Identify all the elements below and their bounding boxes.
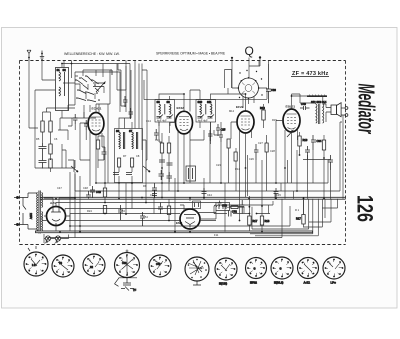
- svg-text:C47: C47: [57, 186, 62, 190]
- antenna coil box S1 S2: [56, 68, 69, 111]
- svg-text:R19: R19: [303, 138, 308, 142]
- wire right nested verticals: [225, 155, 338, 232]
- wire left column top: [35, 90, 75, 168]
- wire oscillator connections: [119, 118, 132, 183]
- svg-text:C52: C52: [232, 210, 237, 214]
- svg-text:R24: R24: [87, 209, 92, 213]
- svg-text:R13: R13: [260, 106, 265, 110]
- wire IFT1 secondary bottom: [159, 122, 211, 144]
- svg-text:S6: S6: [116, 129, 120, 133]
- long wire y205 rounded: [217, 201, 274, 207]
- junction dot: [71, 63, 73, 65]
- capacitor C40: [300, 102, 310, 110]
- resistor R4: [49, 159, 52, 172]
- antenna A: [27, 50, 31, 60]
- resistor R22: [103, 183, 106, 203]
- wire T2 leads: [170, 123, 190, 191]
- volume potentiometer R8: [71, 160, 78, 172]
- nested corner wires right: [250, 115, 343, 236]
- tube ECH21 V1: [88, 107, 104, 135]
- tube EF22 V3: [236, 105, 254, 133]
- svg-text:7F: 7F: [133, 288, 136, 292]
- capacitor C30: [266, 64, 276, 103]
- wire drops to buses: [70, 130, 313, 238]
- Mediator script logo: [353, 84, 378, 135]
- long wire y237.5: [48, 199, 282, 238]
- lamp arrows: [45, 241, 58, 243]
- wire antenna lead down: [29, 60, 38, 128]
- chassis dashed border top: [20, 60, 346, 62]
- small components C22: [219, 130, 223, 142]
- svg-text:C27: C27: [258, 141, 263, 145]
- svg-text:4nF 4nF: 4nF 4nF: [157, 119, 167, 123]
- wire T3 leads: [231, 122, 252, 175]
- resistor R3: [49, 143, 52, 160]
- resistor R23: [227, 206, 244, 209]
- capacitor C18: [167, 172, 173, 182]
- terminal strip box right of EM4: [216, 203, 230, 211]
- T1 cathode capacitor C7: [102, 147, 107, 160]
- svg-text:C50: C50: [222, 204, 227, 208]
- output transformer S12 S13: [311, 100, 327, 124]
- svg-text:C8: C8: [136, 154, 140, 158]
- resistor R1: [41, 112, 44, 143]
- T1 cathode resistor R6: [96, 136, 99, 160]
- tuning indicator tube EM4: [176, 209, 200, 229]
- wire T1 cathode: [98, 136, 104, 168]
- chassis bus bar core: [36, 231, 312, 233]
- svg-text:EF22: EF22: [250, 281, 257, 285]
- wires left mid: [58, 70, 146, 186]
- long wire y220.5: [42, 216, 216, 221]
- svg-text:S1: S1: [57, 68, 61, 72]
- choke hatch: [309, 95, 326, 97]
- svg-text:R 1: R 1: [295, 208, 300, 212]
- svg-text:C30: C30: [271, 88, 276, 92]
- svg-text:R5: R5: [36, 137, 40, 141]
- svg-text:C28: C28: [270, 149, 275, 153]
- svg-text:S12 S13 S14: S12 S13 S14: [311, 100, 327, 104]
- IF transformer 1 box S8 S9: [155, 100, 175, 123]
- svg-text:EF22: EF22: [177, 106, 185, 110]
- svg-text:C40: C40: [301, 102, 306, 106]
- filter choke bar: [307, 95, 327, 97]
- capacitor C4 under switch: [73, 114, 78, 124]
- ground (earth): [40, 51, 44, 60]
- capacitor C5 under switch: [84, 120, 89, 130]
- wire primary top: [292, 96, 323, 104]
- svg-text:EBL21: EBL21: [286, 105, 296, 109]
- dial cord guide dots: [239, 70, 263, 98]
- svg-text:C48: C48: [83, 186, 88, 190]
- svg-text:C34: C34: [317, 139, 322, 143]
- long wire y226: [70, 206, 290, 232]
- magic eye assembly top view: [238, 77, 260, 99]
- wire speaker connections: [323, 104, 345, 122]
- pilot lamp LP1: [45, 236, 50, 241]
- resistor R13 grid stopper: [260, 104, 265, 128]
- svg-text:126: 126: [352, 195, 377, 222]
- resistor R19 screen: [298, 132, 308, 155]
- wire EM4 leads: [180, 198, 216, 219]
- wire drum bracket: [225, 70, 232, 95]
- capacitor C46 on bus: [86, 191, 91, 199]
- wire T1 leads: [80, 104, 102, 168]
- svg-text:M12: M12: [229, 109, 235, 113]
- valve base diagram B3: [83, 254, 105, 276]
- capacitor C44 on bus: [202, 188, 207, 198]
- wire IF shield line: [144, 80, 267, 100]
- capacitor C2: [39, 143, 47, 159]
- switch frame wires: [75, 61, 130, 119]
- capacitor C33: [305, 146, 310, 160]
- valve base diagram AZ1: [298, 258, 319, 285]
- band switch S3 contacts: [75, 75, 100, 102]
- svg-text:C26: C26: [249, 157, 254, 161]
- model number 126: [352, 195, 377, 222]
- junction dots buses: [55, 182, 298, 233]
- valve base diagram B4: [115, 250, 140, 293]
- resistor R17: [248, 196, 258, 232]
- capacitor C52: [229, 210, 238, 217]
- mains switch and cord: [14, 193, 37, 229]
- resistor R21 vertical: [296, 199, 305, 228]
- svg-text:S9: S9: [167, 100, 171, 104]
- svg-text:C38: C38: [122, 262, 127, 265]
- pilot lamp LP2: [55, 236, 60, 241]
- speaker terminal bottom: [345, 114, 348, 117]
- svg-text:R7: R7: [123, 154, 127, 158]
- capacitor C3: [39, 159, 47, 169]
- resistor box R25 above EM4: [193, 201, 201, 209]
- svg-text:S11: S11: [207, 100, 212, 104]
- chassis bus bar: [35, 230, 313, 233]
- tube EF22 V2: [176, 106, 193, 134]
- svg-text:ZF = 473 kHz: ZF = 473 kHz: [292, 71, 328, 77]
- IF transformer 2 box S10 S11: [196, 100, 216, 123]
- wire verticals oscillator section: [118, 64, 147, 161]
- tone capacitor C34: [311, 135, 322, 150]
- resistor block R11 R12: [186, 166, 196, 181]
- svg-text:SPERRKREISE OPTIMUM • MAGE • B: SPERRKREISE OPTIMUM • MAGE • BEA.PRE: [156, 52, 226, 56]
- node dot left of Q: [231, 57, 233, 59]
- capacitor C53: [118, 205, 123, 220]
- coupling capacitor C50: [214, 201, 227, 208]
- wire screen line: [303, 159, 330, 161]
- svg-text:4nF 4nF: 4nF 4nF: [198, 119, 208, 123]
- capacitor C55: [158, 203, 163, 215]
- capacitor C45 on bus: [274, 188, 279, 198]
- waveband switch diagram B6: [185, 257, 209, 285]
- valve base diagram LPe: [323, 257, 345, 285]
- wire AZ1 leads: [44, 198, 75, 232]
- power transformer T100: [37, 191, 43, 234]
- svg-text:S8: S8: [157, 100, 161, 104]
- svg-text:G: G: [280, 267, 282, 271]
- resistor R24 on bus: [103, 206, 106, 214]
- chassis dashed border left: [19, 61, 21, 245]
- junction dots misc: [61, 63, 292, 200]
- capacitor C49: [90, 186, 101, 198]
- wire IFT2 leads: [190, 90, 246, 130]
- svg-text:S2: S2: [63, 68, 67, 72]
- wire IFT1 leads: [159, 94, 184, 133]
- small components C31: [254, 144, 259, 160]
- capacitor C10: [123, 96, 128, 107]
- wires misc mid: [190, 122, 267, 168]
- chassis dashed border right: [345, 61, 347, 245]
- svg-text:C23: C23: [216, 163, 221, 167]
- svg-text:Q: Q: [245, 44, 254, 58]
- capacitor C21 ift2: [208, 130, 213, 141]
- svg-text:ECH21: ECH21: [92, 107, 102, 111]
- long wire y208.5: [65, 207, 244, 215]
- long wire y198.8 heavy: [40, 198, 346, 200]
- wire lattice front-end: [63, 61, 139, 129]
- tube EBL21 V4: [283, 105, 300, 133]
- small components R taps: [227, 139, 268, 161]
- capacitor C16 C17: [159, 160, 173, 165]
- wire T4 leads: [276, 94, 300, 168]
- svg-text:F11: F11: [214, 233, 219, 237]
- wire Q stem: [232, 58, 260, 89]
- capacitor C35: [328, 155, 333, 170]
- wire ground lead down: [42, 60, 55, 80]
- svg-text:G: G: [254, 267, 256, 271]
- node dot right of Q: [259, 56, 261, 58]
- capacitor C14 ift1: [154, 129, 159, 140]
- svg-text:C41: C41: [156, 263, 161, 266]
- wire lamps: [44, 234, 69, 243]
- svg-text:A-Z1: A-Z1: [304, 281, 311, 285]
- svg-text:R17: R17: [296, 217, 301, 221]
- long wire y197.5 heavy: [40, 196, 346, 198]
- svg-text:R15: R15: [272, 118, 277, 122]
- capacitor C17: [159, 170, 165, 180]
- resistor R26: [167, 199, 170, 221]
- svg-text:R17: R17: [253, 219, 258, 223]
- svg-text:C15: C15: [155, 138, 160, 142]
- svg-text:EF22: EF22: [236, 105, 244, 109]
- resistor R2: [49, 112, 52, 143]
- capacitor C51: [240, 200, 245, 214]
- chassis dashed border bottom: [20, 244, 346, 246]
- mains terminal L: [16, 196, 19, 199]
- svg-text:WELLENBEREICHE : KW. MW. LW.: WELLENBEREICHE : KW. MW. LW.: [64, 52, 120, 56]
- capacitor C42 on bus: [152, 190, 157, 198]
- svg-text:C6: C6: [54, 137, 58, 141]
- wire from coil box top to switch: [62, 61, 130, 79]
- wire magic eye leads: [243, 88, 267, 108]
- valve base diagram EBL21: [271, 257, 293, 285]
- capacitor C19: [152, 183, 157, 198]
- rectifier tube AZ1: [47, 201, 66, 226]
- tone potentiometer R16: [143, 160, 150, 172]
- capacitor C54: [140, 212, 145, 226]
- svg-text:E(BL2): E(BL2): [274, 281, 283, 285]
- oscillator coil box S6 S7: [113, 129, 143, 183]
- speaker terminal top: [345, 107, 348, 110]
- label ZF = 473 kHz: [291, 71, 329, 77]
- svg-text:Mediator: Mediator: [353, 84, 378, 135]
- loudspeaker LS: [331, 103, 341, 117]
- svg-text:C54: C54: [143, 215, 148, 219]
- valve base diagram ECH21: [215, 258, 237, 286]
- wire grid line with C52: [214, 207, 270, 214]
- long wire y202.5: [56, 203, 216, 208]
- svg-text:220V: 220V: [29, 213, 33, 219]
- svg-text:E(CH): E(CH): [219, 282, 227, 286]
- capacitor C25 coupling: [216, 124, 226, 136]
- svg-text:C44: C44: [207, 193, 212, 197]
- capacitor C11: [129, 108, 134, 119]
- valve base diagram EF22: [246, 258, 267, 285]
- detector resistor cluster R10: [160, 133, 170, 168]
- long wire y213.5 left: [70, 214, 180, 221]
- svg-text:R18: R18: [265, 219, 270, 223]
- valve base diagram B2: [52, 255, 74, 277]
- junction dots on bus: [104, 154, 325, 214]
- svg-text:S7: S7: [129, 129, 133, 133]
- valve base diagram B1: [24, 246, 48, 276]
- svg-text:LPe: LPe: [331, 281, 337, 285]
- svg-text:S10: S10: [198, 100, 203, 104]
- resistor R20: [322, 135, 325, 158]
- wire lattice mid-left: [60, 84, 86, 168]
- mains terminal N: [16, 223, 19, 226]
- wire extra T1 drops: [75, 104, 108, 183]
- long wire y183: [96, 160, 328, 183]
- long wire y191: [75, 122, 342, 191]
- valve base diagram B5: [149, 255, 171, 277]
- junction dots buses extra: [55, 182, 325, 233]
- wire AVC line: [259, 61, 269, 67]
- resistor R18: [260, 206, 270, 232]
- pot arrow R19: [287, 131, 293, 138]
- svg-text:C49: C49: [96, 190, 101, 194]
- svg-text:7S: 7S: [59, 262, 62, 265]
- valve base pin leads: [26, 254, 342, 277]
- tuning capacitor C1 variable: [93, 82, 105, 92]
